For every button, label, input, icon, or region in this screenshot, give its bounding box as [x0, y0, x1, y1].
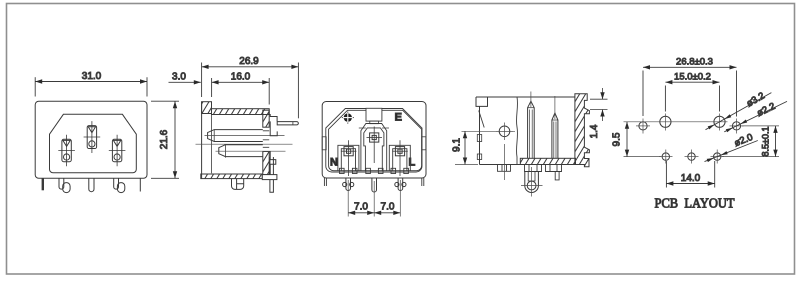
left terminal [341, 140, 357, 176]
pin E (center contact) [84, 121, 101, 153]
rear view outer rect [322, 102, 426, 179]
dimension 31.0 [35, 77, 147, 96]
body outline [476, 97, 575, 165]
center channel shoulder steps [359, 127, 389, 129]
bottom snap hook [232, 179, 244, 190]
top wall (hatched) [212, 109, 270, 115]
PCB pin N (left) [343, 178, 354, 190]
latch marks on left edge [477, 135, 481, 142]
leader φ2.2 [724, 101, 787, 132]
svg-text:N: N [330, 157, 338, 169]
upper prong [208, 130, 263, 142]
svg-text:26.9: 26.9 [239, 56, 259, 67]
svg-text:E: E [395, 112, 402, 124]
inner division (parting) line [516, 97, 517, 165]
svg-text:31.0: 31.0 [82, 71, 102, 82]
dimension 16.0 [212, 78, 270, 105]
center solder terminal with hole [505, 144, 543, 197]
dimension 3.0 (leader outside) [169, 80, 201, 84]
leader φ2.0 [705, 141, 758, 163]
PCB pin L (right) [395, 178, 406, 190]
solder pin horizontal (right) [277, 122, 298, 125]
solder lug right [114, 178, 119, 189]
rear inner wall outline inner [329, 110, 422, 170]
svg-text:L: L [409, 157, 416, 169]
svg-text:PCB LAYOUT: PCB LAYOUT [655, 196, 736, 211]
svg-text:15.0±0.2: 15.0±0.2 [674, 72, 711, 83]
terminal bracket upper right [269, 115, 277, 136]
bottom right foot [262, 175, 277, 180]
hole bottom-center (2.0) [685, 150, 699, 164]
solder lug left [59, 178, 64, 189]
pin L (left contact) [58, 135, 75, 166]
right terminal area rungs [263, 131, 269, 148]
hole top-left small (2.2) [636, 119, 650, 134]
svg-text:3.0: 3.0 [172, 72, 186, 83]
dimension 14.0 [666, 161, 714, 188]
dimension 8.5±0.1 [722, 126, 779, 157]
center top tab [366, 108, 382, 121]
base plate (hatched) [520, 158, 575, 164]
PCB pin E (center) [372, 178, 377, 192]
side wall notch right [422, 137, 426, 150]
rear inner wall outline outer [326, 109, 422, 173]
hole bottom-right (2.0) [711, 150, 725, 164]
left terminal channel [338, 145, 359, 170]
dimension 7.0 / 7.0 [348, 180, 400, 217]
dimension 26.8±0.3 [643, 65, 737, 116]
solder lugs under base [498, 165, 562, 180]
hole top-right small (2.2) [730, 119, 744, 134]
window circle [496, 123, 513, 141]
right terminal channel [389, 145, 410, 170]
bottom feet pads row [340, 168, 409, 173]
dimension 21.6 [151, 101, 179, 178]
right wall lower (hatched) [263, 152, 269, 175]
centerline upper prong [205, 135, 285, 137]
flange (hatched top block) [202, 102, 212, 114]
earth symbol [342, 112, 354, 124]
dimension 9.5 [624, 122, 662, 157]
solder pin 2 (short, pointed) [552, 96, 558, 158]
right terminal [392, 140, 408, 176]
flange left face line [201, 102, 203, 179]
svg-text:7.0: 7.0 [381, 202, 395, 213]
center channel outer [361, 124, 387, 171]
bottom wall (hatched) [201, 174, 262, 179]
right wall upper (hatched) [263, 110, 269, 127]
svg-text:16.0: 16.0 [231, 72, 251, 83]
horizontal centerline through top row [624, 121, 728, 123]
solder lug center [89, 178, 94, 191]
center terminal [367, 127, 383, 164]
terminal bracket lower right [269, 152, 276, 175]
svg-text:7.0: 7.0 [354, 202, 368, 213]
dimension 15.0±0.2 [665, 80, 719, 112]
centerline lower prong [216, 150, 286, 152]
side tabs below [324, 178, 423, 186]
center channel inner [364, 128, 384, 171]
lower prong [219, 145, 263, 157]
svg-text:26.8±0.3: 26.8±0.3 [676, 57, 713, 68]
side wall notch left [322, 137, 326, 150]
dimension 9.1 [455, 131, 515, 164]
right mounting wall (hatched with barbs) [575, 94, 590, 167]
svg-text:1.4: 1.4 [589, 124, 600, 138]
front view outer body rect [35, 101, 147, 178]
hole top large right (3.2) [714, 114, 725, 131]
hole bottom-left (2.0) [659, 150, 673, 164]
svg-text:21.6: 21.6 [159, 129, 170, 149]
solder pin vertical (right bottom) [270, 157, 274, 192]
svg-text:14.0: 14.0 [681, 173, 701, 184]
dimension 26.9 [202, 63, 299, 119]
dimension 1.4 [590, 88, 608, 121]
mounting leg right thin [139, 178, 141, 191]
mounting leg left thick [42, 178, 44, 190]
hole top large left (3.2) [660, 114, 671, 131]
svg-text:8.5±0.1: 8.5±0.1 [761, 127, 771, 157]
pin N (right contact) [109, 135, 126, 166]
leader φ3.2 [706, 93, 772, 130]
solder pin 1 (tall, pointed) [528, 92, 535, 159]
front view inlet face (beveled trapezoid) [50, 114, 137, 172]
svg-text:9.1: 9.1 [452, 138, 463, 152]
svg-text:9.5: 9.5 [612, 132, 623, 146]
centerline main axis [196, 143, 293, 145]
